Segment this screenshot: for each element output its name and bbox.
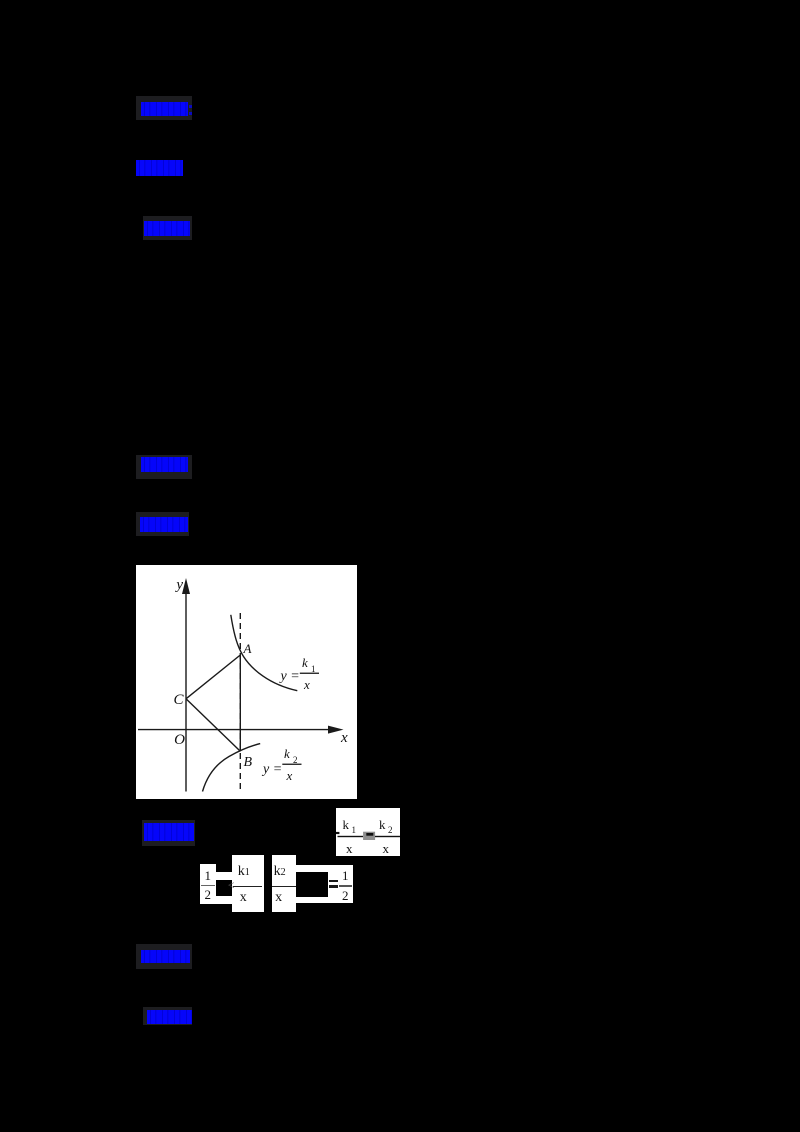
highlight behind label 1: [136, 96, 192, 120]
white connector strip top: [215, 872, 232, 880]
colon after label 1: [189, 105, 192, 108]
highlight behind label 8: [143, 1007, 192, 1025]
y-axis: [185, 591, 187, 792]
svg-text:x: x: [340, 730, 348, 746]
x-axis: [138, 729, 332, 731]
svg-text:x: x: [383, 841, 390, 856]
equals sign: [329, 880, 338, 883]
hyperbola branch k1: [231, 615, 297, 691]
less-than sign: [228, 878, 235, 893]
blue label 5: [140, 517, 188, 532]
bar 2: [375, 836, 400, 837]
line CA: [186, 655, 240, 699]
blue label 7: [141, 950, 190, 963]
figure: coordinate graph: [136, 565, 357, 799]
svg-text:k: k: [302, 655, 308, 670]
blue label 2: [136, 160, 183, 176]
svg-text:y =: y =: [279, 669, 300, 684]
= 1/2 box with black rectangle: [296, 865, 352, 903]
highlight behind label 3: [143, 216, 192, 240]
white connector strip bottom: [216, 896, 232, 904]
svg-text:y =: y =: [261, 762, 282, 777]
fraction k1/x box: [232, 855, 264, 912]
svg-text:2: 2: [293, 755, 298, 765]
svg-text:1: 1: [311, 664, 316, 674]
svg-text:k: k: [284, 746, 290, 761]
line CB: [186, 699, 240, 752]
svg-text:k: k: [343, 817, 350, 832]
blue label 6: [144, 823, 194, 841]
blue label 8: [147, 1010, 192, 1024]
blue label 4: [141, 457, 188, 472]
bar 1: [338, 836, 364, 837]
highlight behind label 6: [142, 820, 195, 846]
highlight behind label 7: [136, 944, 192, 969]
svg-text:O: O: [174, 732, 185, 748]
fraction k2/x box: [272, 855, 297, 912]
svg-text:y: y: [174, 577, 183, 593]
fraction 1/2 (second): [338, 865, 353, 903]
blue label 3: [144, 221, 190, 236]
blue label 1: [141, 102, 188, 116]
svg-text:k: k: [379, 817, 386, 832]
highlight behind label 4: [136, 455, 192, 479]
svg-text:1: 1: [352, 825, 357, 835]
minus tick at left edge: [336, 832, 339, 834]
y-axis arrowhead: [182, 578, 190, 594]
svg-text:A: A: [243, 641, 252, 656]
formula image F1: k1/x = k2/x: [336, 808, 400, 856]
svg-text:C: C: [174, 692, 185, 708]
svg-text:x: x: [303, 677, 310, 692]
dashed line through A and B: [239, 613, 241, 793]
highlight behind label 5: [136, 512, 189, 536]
svg-text:2: 2: [388, 825, 393, 835]
x-axis arrowhead: [328, 726, 344, 734]
fraction 1/2 (first): [200, 864, 216, 904]
black rectangle hole: [296, 872, 328, 897]
fraction bar k1/x: [300, 673, 319, 674]
svg-text:x: x: [346, 841, 353, 856]
svg-text:x: x: [286, 768, 293, 783]
svg-text:B: B: [244, 755, 253, 770]
hyperbola branch k2: [203, 744, 261, 792]
equals blob: [363, 832, 375, 840]
fraction bar k2/x: [282, 764, 301, 765]
segment AB: [239, 655, 241, 751]
